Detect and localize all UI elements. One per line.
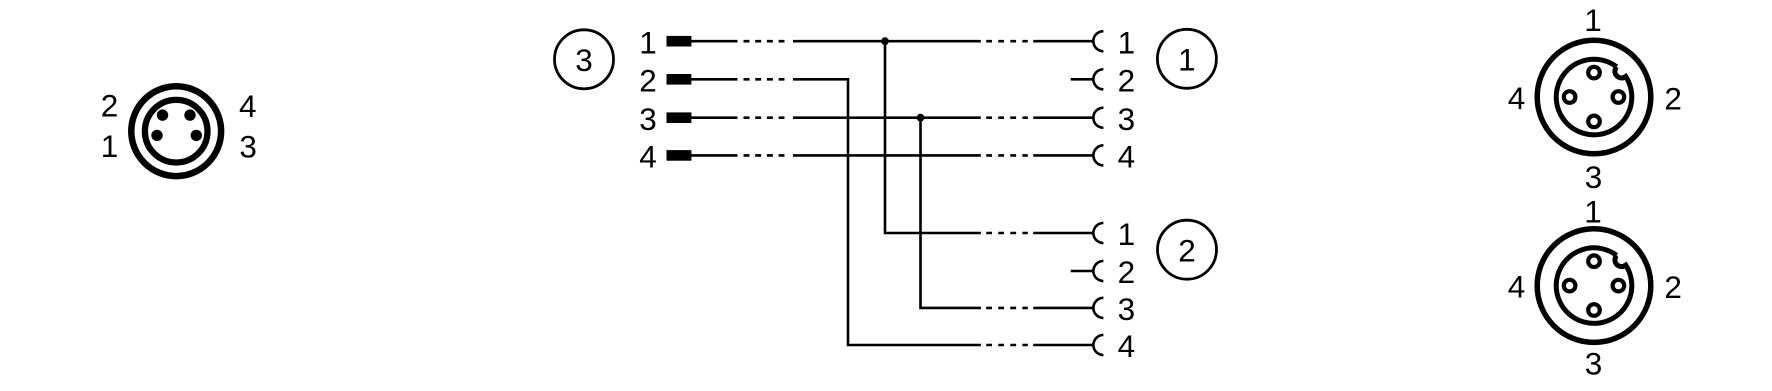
wire 3.4 to 1.4 solid run [793, 154, 981, 157]
socket 1 (top) [1588, 255, 1600, 267]
socket 4 (left) [1564, 91, 1576, 103]
wire 2.1 dashed section [986, 232, 1028, 235]
wire stub contact 1.2 [1071, 78, 1094, 81]
pin 4 (top-right) [184, 109, 195, 120]
wire 3.3 solid lead [691, 116, 738, 119]
wire 1.4 dashed section [986, 154, 1028, 157]
inner insert circle with keyway notch [1556, 248, 1632, 324]
female contact arc 2.2 [1093, 261, 1103, 281]
outer housing circle [1537, 40, 1651, 154]
wire 1.4 solid end [1033, 154, 1093, 157]
wire 1.3 dashed section [986, 116, 1028, 119]
svg-text:1: 1 [1178, 42, 1196, 78]
wire 3.2 cable dashed section [744, 78, 785, 81]
svg-text:3: 3 [1585, 345, 1603, 381]
svg-text:3: 3 [1585, 159, 1603, 195]
svg-text:4: 4 [239, 88, 257, 124]
wire 3.1 to 1.1 solid run [793, 40, 981, 43]
socket 4 (left) [1564, 280, 1576, 292]
connector face view right top (female M8) [1537, 40, 1651, 154]
wire 2.3 solid end [1033, 307, 1093, 310]
svg-text:3: 3 [639, 101, 657, 137]
wire 2.1 solid end [1033, 232, 1093, 235]
svg-text:2: 2 [1118, 62, 1136, 98]
svg-text:1: 1 [1584, 2, 1602, 38]
inner insert circle [145, 100, 208, 163]
wire 2.3 dashed section [986, 307, 1028, 310]
svg-text:1: 1 [1118, 216, 1136, 252]
pin 3 (bottom-right) [191, 130, 202, 141]
svg-text:2: 2 [1178, 233, 1196, 269]
wire 3.1 solid lead [691, 40, 738, 43]
socket 1 (top) [1588, 67, 1600, 79]
outer housing circle [1537, 229, 1651, 343]
wire 2.4 dashed section [986, 344, 1028, 347]
wire branch node1 down to 2.1 [885, 41, 981, 233]
female contact arc 2.1 [1093, 223, 1103, 243]
svg-text:4: 4 [1118, 139, 1136, 175]
svg-text:3: 3 [239, 128, 257, 164]
svg-text:4: 4 [1508, 268, 1526, 304]
connector face view left (male M8) [131, 86, 221, 176]
connector id circle 3 [555, 30, 614, 89]
junction node on wire 1 [881, 37, 889, 45]
svg-text:1: 1 [1118, 24, 1136, 60]
socket 3 (bottom) [1588, 304, 1600, 316]
connector face view right bottom (female M8) [1537, 229, 1651, 343]
svg-text:2: 2 [639, 62, 657, 98]
wire 3.4 cable dashed section [744, 154, 785, 157]
svg-text:4: 4 [639, 139, 657, 175]
crimp terminal pin 3.2 [667, 74, 692, 85]
wire 1.1 dashed section [986, 40, 1028, 43]
inner insert circle with keyway notch [1556, 59, 1632, 135]
wire 1.3 solid end [1033, 116, 1093, 119]
connector id circle 2 [1158, 220, 1217, 279]
junction node on wire 3 [917, 114, 925, 122]
svg-text:2: 2 [1118, 254, 1136, 290]
wire 3.3 to 1.3 solid run [793, 116, 981, 119]
svg-text:2: 2 [101, 88, 119, 124]
svg-text:2: 2 [1664, 269, 1682, 305]
pin 1 (bottom-left) [151, 130, 162, 141]
socket 3 (bottom) [1588, 116, 1600, 128]
female contact arc 2.3 [1093, 298, 1103, 318]
socket 2 (right) [1613, 91, 1625, 103]
svg-text:2: 2 [1664, 81, 1682, 117]
svg-text:4: 4 [1118, 328, 1136, 364]
crimp terminal pin 3.3 [667, 112, 692, 123]
wire stub contact 2.2 [1071, 270, 1094, 273]
svg-text:4: 4 [1508, 80, 1526, 116]
svg-text:3: 3 [575, 42, 593, 78]
female contact arc 2.4 [1093, 335, 1103, 355]
female contact arc 1.1 [1093, 31, 1103, 51]
svg-text:1: 1 [101, 128, 119, 164]
wire 3.4 solid lead [691, 154, 738, 157]
wire 3.3 cable dashed section [744, 116, 785, 119]
female contact arc 1.3 [1093, 108, 1103, 128]
pin 2 (top-left) [157, 109, 168, 120]
wire 2.4 solid end [1033, 344, 1093, 347]
wire 1.1 solid end [1033, 40, 1093, 43]
svg-text:3: 3 [1118, 291, 1136, 327]
crimp terminal pin 3.1 [667, 36, 692, 47]
female contact arc 1.4 [1093, 145, 1103, 165]
outer housing circle [131, 86, 221, 176]
wire 3.2 solid lead [691, 78, 738, 81]
socket 2 (right) [1613, 280, 1625, 292]
connector id circle 1 [1157, 29, 1216, 88]
wire 3.2 run down to 2.4 [793, 79, 981, 345]
female contact arc 1.2 [1093, 69, 1103, 89]
svg-text:1: 1 [1584, 194, 1602, 230]
wire branch node3 down to 2.3 [921, 118, 981, 308]
svg-text:3: 3 [1118, 101, 1136, 137]
svg-text:1: 1 [639, 24, 657, 60]
wire 3.1 cable dashed section [744, 40, 785, 43]
crimp terminal pin 3.4 [667, 150, 692, 161]
